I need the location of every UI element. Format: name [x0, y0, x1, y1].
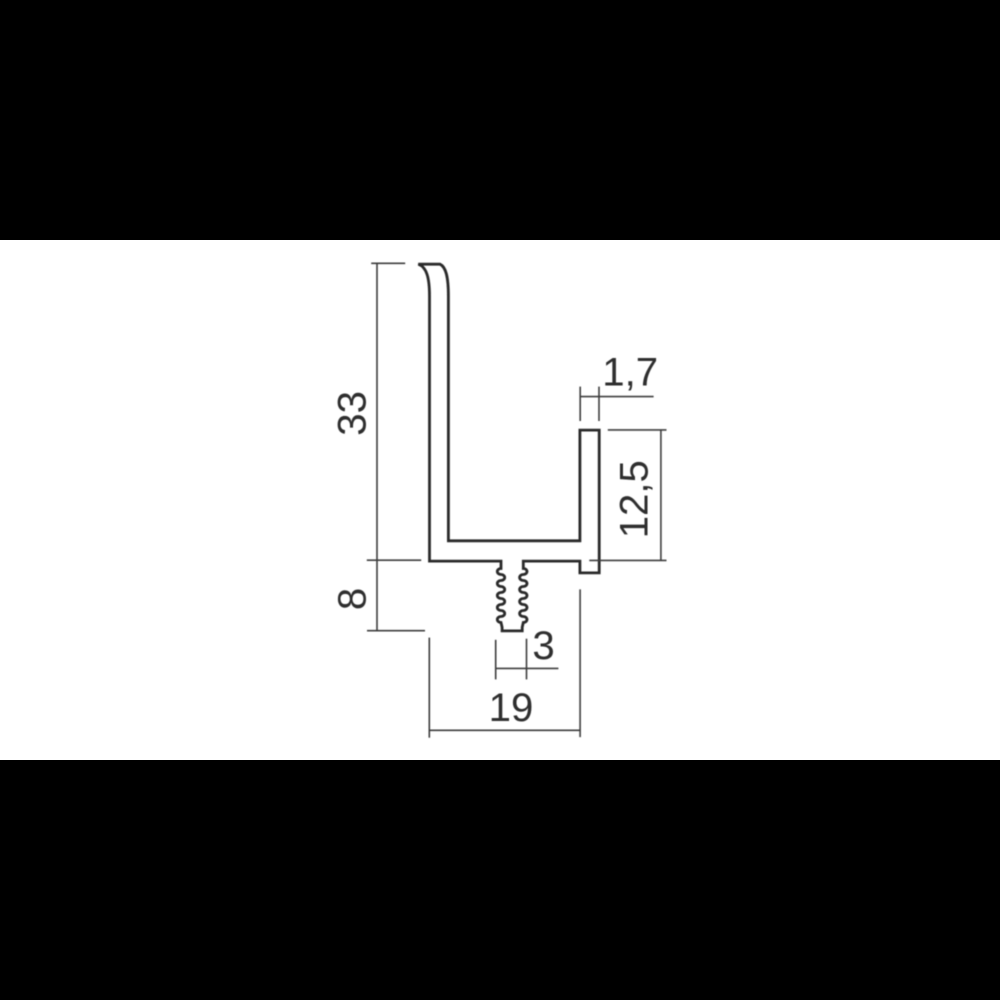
svg-text:19: 19: [489, 685, 534, 730]
dimension 3 extension lines: [495, 640, 497, 680]
profile outline (aluminium cross-section): [418, 264, 599, 631]
tick top (upstand top): [608, 429, 667, 431]
dimension 33/8 vertical line: [376, 263, 378, 630]
dimension 12,5 vertical line: [660, 430, 662, 561]
svg-text:8: 8: [330, 588, 375, 610]
dimension 19 line: [429, 729, 580, 731]
dimension 1,7 line: [580, 396, 653, 398]
svg-text:3: 3: [532, 623, 554, 668]
tick top (profile top): [371, 262, 405, 264]
svg-text:1,7: 1,7: [602, 349, 658, 394]
tick middle (bar bottom): [367, 559, 421, 561]
tick bottom (stem bottom): [367, 630, 425, 632]
white drawing band: [0, 240, 1000, 760]
dimension 19 extension lines: [428, 638, 430, 738]
svg-text:12,5: 12,5: [612, 460, 657, 538]
svg-text:33: 33: [330, 391, 375, 436]
tick bottom (bar bottom): [589, 559, 666, 561]
dimension 3 line: [496, 667, 559, 669]
dimension 1,7 ticks: [579, 387, 581, 421]
